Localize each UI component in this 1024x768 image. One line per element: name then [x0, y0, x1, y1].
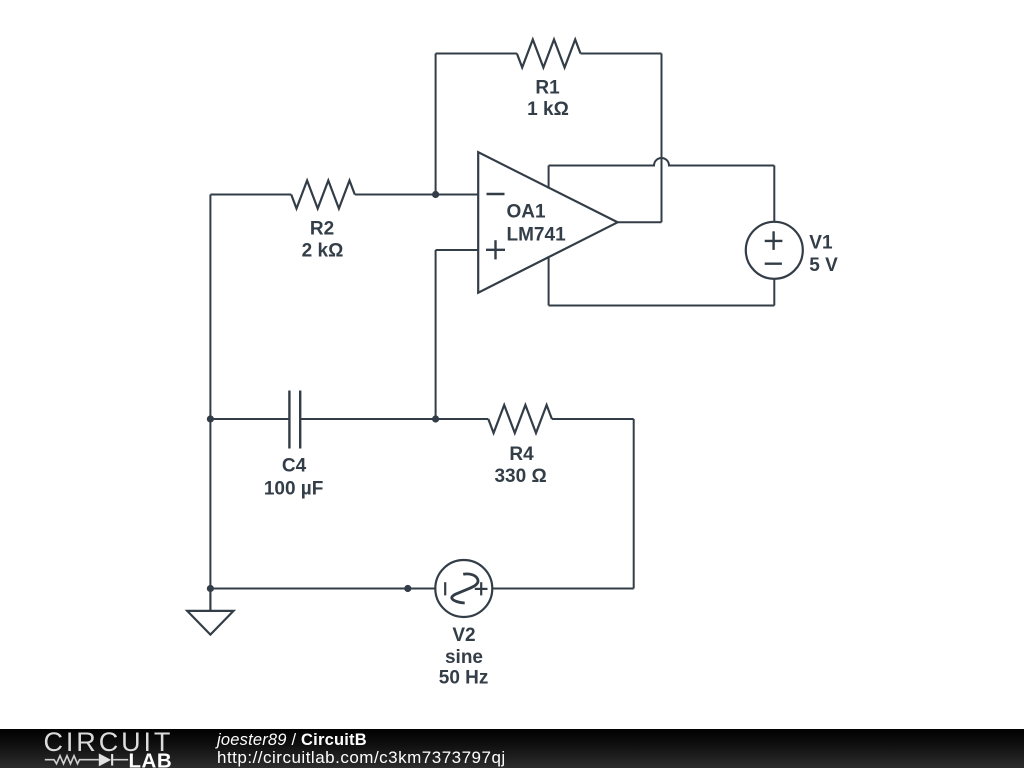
svg-text:5 V: 5 V	[809, 255, 838, 276]
svg-text:R2: R2	[310, 219, 334, 240]
wire C4 right lead	[300, 418, 435, 420]
voltage source V2 circle	[435, 560, 492, 617]
label R4 value	[494, 444, 546, 487]
node junction dot C4 / R4 / non-inverting	[432, 415, 439, 422]
V1 plus sign	[765, 231, 783, 250]
svg-text:C4: C4	[282, 456, 307, 477]
CircuitLab logo	[40, 731, 185, 768]
label V1 value	[809, 232, 838, 276]
capacitor C4	[289, 391, 300, 449]
op-amp non-inverting plus symbol	[486, 240, 505, 259]
wire op-amp output	[618, 221, 662, 223]
svg-text:R1: R1	[535, 78, 560, 99]
V2 sine symbol	[452, 574, 478, 603]
wire left vertical rail	[209, 195, 211, 611]
wire R4 left lead	[436, 418, 489, 420]
wire op-amp V- pin	[548, 256, 550, 305]
footer url text	[217, 750, 506, 766]
wire bottom row right of V2	[492, 588, 633, 590]
wire non-inverting input	[436, 249, 479, 251]
svg-text:1 kΩ: 1 kΩ	[527, 99, 569, 120]
wire op-amp V+ pin	[548, 166, 550, 189]
svg-text:330 Ω: 330 Ω	[494, 466, 546, 487]
wire V- rail	[549, 305, 775, 307]
wire top-left vertical (R1 left lead down to inverting node)	[435, 54, 437, 195]
V2 minus bar	[444, 582, 446, 595]
wire R2 left lead	[210, 194, 291, 196]
wire bottom row left of V2	[210, 588, 435, 590]
wire top horizontal right lead of R1	[581, 53, 662, 55]
node junction dot bottom row / V2	[404, 585, 411, 592]
op-amp inverting minus symbol	[487, 193, 505, 195]
resistor R2	[291, 181, 355, 209]
node junction dot at inverting input	[432, 191, 439, 198]
wire C4 left lead	[210, 418, 289, 420]
wire right vertical from R1 down to op-amp output	[661, 54, 663, 223]
wire V1 top lead	[773, 166, 775, 222]
wire right mid vertical (R4 to bottom row)	[633, 419, 635, 589]
svg-text:R4: R4	[509, 444, 534, 465]
resistor R1	[517, 40, 581, 68]
wire V+ rail with hop over output wire	[549, 158, 775, 166]
footer attribution text	[217, 732, 367, 748]
wire top horizontal left lead of R1	[436, 53, 517, 55]
svg-text:sine: sine	[445, 647, 483, 668]
svg-text:LAB: LAB	[129, 750, 173, 768]
svg-text:100 µF: 100 µF	[264, 479, 324, 500]
label C4 value	[264, 456, 324, 500]
wire R2 right lead to inverting input	[355, 194, 478, 196]
svg-text:OA1: OA1	[507, 202, 547, 223]
wire R4 right lead	[552, 418, 634, 420]
ground stub wire	[209, 589, 211, 611]
svg-text:V2: V2	[452, 625, 475, 646]
node junction dot left rail / C4	[207, 415, 214, 422]
V1 minus sign	[765, 263, 782, 265]
svg-text:50 Hz: 50 Hz	[439, 668, 489, 689]
label R1 value	[527, 78, 569, 121]
wire middle vertical (non-inverting input down to C4/R4 node)	[435, 250, 437, 419]
svg-text:LM741: LM741	[507, 225, 567, 246]
svg-text:V1: V1	[809, 232, 833, 253]
label V2 value	[439, 625, 489, 689]
voltage source V1 circle	[746, 222, 803, 279]
label R2 value	[302, 219, 344, 262]
op-amp OA1 triangle	[478, 152, 617, 293]
label OA1 LM741	[507, 202, 567, 246]
svg-text:2 kΩ: 2 kΩ	[302, 241, 344, 262]
resistor R4	[488, 405, 552, 433]
V2 plus sign	[475, 582, 488, 595]
wire V1 bottom lead	[773, 279, 775, 306]
footer bar	[0, 729, 1024, 768]
ground symbol	[187, 611, 233, 635]
node junction dot left rail / ground	[207, 585, 214, 592]
